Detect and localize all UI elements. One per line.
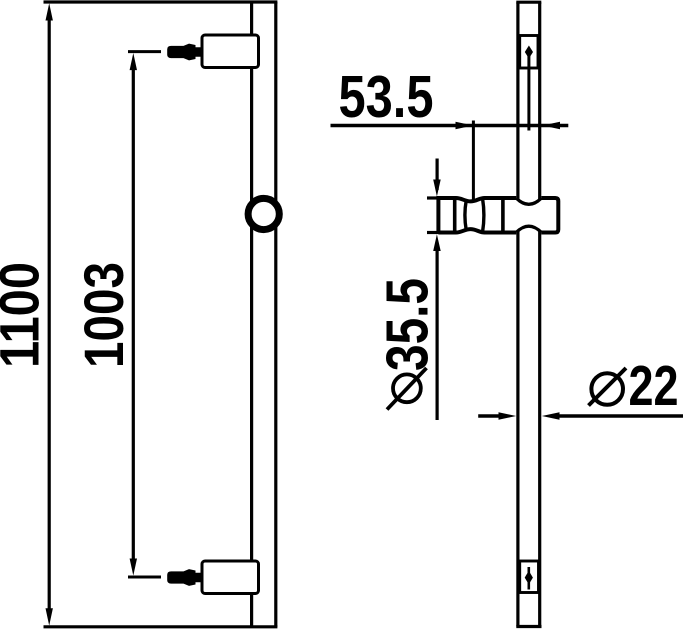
dimension 35.5: upper arrowhead pointing down bbox=[433, 180, 441, 197]
slider assembly outline (side view) bbox=[438, 198, 558, 233]
dimension 22: right arrowhead pointing left at rail edge bbox=[542, 412, 560, 419]
rail front view: left edge line (upper segment) bbox=[250, 2, 253, 35]
rail side view: top end cap line bbox=[516, 1, 541, 4]
rail side view: right edge line upper bbox=[538, 2, 541, 199]
slider body white fill bbox=[440, 200, 557, 231]
slider grip divider 2 (curved waist left) bbox=[465, 201, 466, 230]
rail side view: bottom end cap line bbox=[516, 625, 541, 628]
dimension 35.5: diameter symbol slash bbox=[387, 368, 427, 410]
slider grip divider 1 bbox=[453, 198, 457, 233]
dimension 22: diameter symbol slash bbox=[589, 368, 627, 406]
svg-text:1100: 1100 bbox=[0, 262, 51, 368]
bottom screw hole diamond marker bbox=[525, 571, 533, 585]
rail front view: right edge line bbox=[274, 2, 277, 627]
rail front view: bottom end cap line bbox=[44, 625, 278, 628]
dimension 53.5: extension line down to slider bbox=[472, 121, 475, 201]
bottom mounting hole rectangle bbox=[520, 561, 539, 593]
svg-text:1003: 1003 bbox=[72, 262, 135, 368]
bottom hose barb connector bbox=[167, 569, 203, 586]
dimension 1100: top arrowhead bbox=[46, 3, 53, 20]
dimension 35.5: lower arrowhead pointing up bbox=[433, 234, 441, 251]
slider collar bottom arc over rail bbox=[516, 226, 541, 232]
svg-text:53.5: 53.5 bbox=[339, 64, 434, 130]
bottom marker tails bbox=[527, 567, 530, 590]
rail front view: top end cap line bbox=[44, 0, 278, 3]
top centerline from marker bbox=[527, 52, 530, 131]
rail side view: left edge line upper bbox=[516, 2, 519, 199]
svg-text:22: 22 bbox=[629, 354, 679, 418]
dimension 1003: top arrowhead bbox=[130, 53, 137, 70]
dimension 22: dimension line left part bbox=[478, 414, 500, 417]
rail side view: left edge line lower bbox=[516, 232, 519, 627]
dimension 35.5: upper dimension line bbox=[436, 159, 439, 191]
dimension 1003: bottom extension tick bbox=[128, 576, 161, 579]
dimension 1003: dimension line bbox=[132, 66, 135, 563]
dimension 53.5: right arrowhead pointing at extension bbox=[456, 122, 474, 129]
top hose barb connector bbox=[167, 44, 203, 61]
rail front view: left edge line (middle segment) bbox=[250, 68, 253, 562]
dimension 53.5: right side arrowhead pointing left at rail edge bbox=[542, 122, 560, 129]
dimension 1100: dimension line bbox=[48, 16, 51, 613]
dimension 53.5: dimension line left part bbox=[331, 124, 569, 127]
dimension 22: left arrowhead pointing right at rail edge bbox=[499, 412, 517, 419]
dimension 35.5: bottom extension tick bbox=[427, 231, 440, 234]
top mounting hole rectangle bbox=[520, 36, 538, 69]
top screw hole diamond marker bbox=[525, 46, 533, 59]
dimension 22: dimension line right part bbox=[554, 414, 683, 417]
svg-text:35.5: 35.5 bbox=[375, 278, 441, 371]
dimension 1003: bottom arrowhead bbox=[130, 559, 137, 576]
slider collar top arc over rail bbox=[516, 198, 541, 204]
top wall bracket bbox=[202, 35, 259, 68]
dimension 1003: top extension tick bbox=[128, 50, 161, 53]
dimension 35.5: top extension tick bbox=[427, 196, 440, 199]
slider grip divider 3 (curved waist right) bbox=[483, 199, 484, 232]
dimension 22: diameter symbol circle bbox=[591, 373, 623, 405]
rail side view: right edge line lower bbox=[538, 232, 541, 627]
slider body divider 4 bbox=[501, 198, 505, 233]
dimension 35.5: lower dimension line bbox=[436, 246, 439, 420]
bottom wall bracket bbox=[202, 561, 259, 594]
dimension 1100: bottom arrowhead bbox=[46, 608, 53, 625]
rail front view: left edge line (lower segment) bbox=[250, 593, 253, 627]
slider knob ring (front view) bbox=[248, 198, 279, 229]
dimension 35.5: diameter symbol circle bbox=[393, 374, 421, 402]
